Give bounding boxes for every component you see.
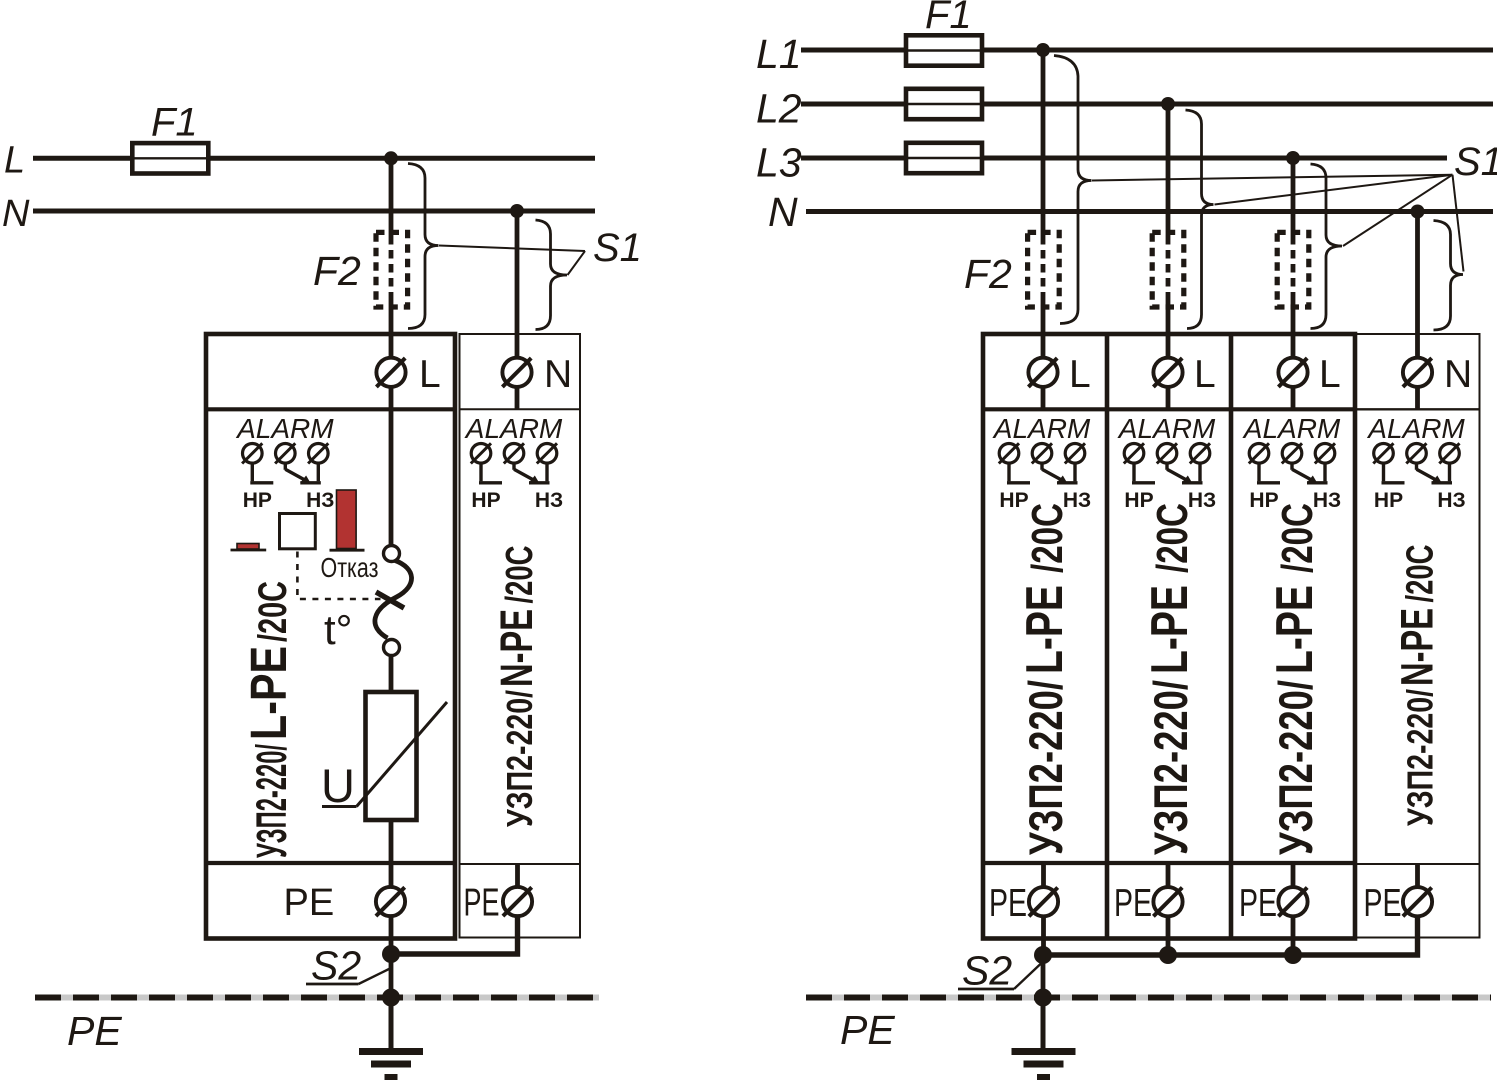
- wire S2 to PE bus right: [1041, 955, 1046, 998]
- indicator tall bar base: [330, 549, 365, 552]
- svg-text:F2: F2: [964, 251, 1012, 297]
- wire to ground left: [389, 998, 394, 1049]
- terminal PE module1: [376, 887, 405, 916]
- wire S2 bus right: [1043, 916, 1418, 955]
- wire L2 dashed in F2: [1166, 236, 1171, 298]
- indicator white square: [280, 514, 316, 549]
- wire to L terminal: [389, 298, 394, 359]
- svg-text:/20C: /20C: [1023, 503, 1072, 573]
- wire L drop: [389, 158, 394, 236]
- svg-text:N-PE: N-PE: [491, 609, 542, 687]
- module 1 PE row line: [206, 861, 455, 865]
- pointer S1 to brace3: [1343, 175, 1453, 246]
- svg-text:F1: F1: [925, 0, 972, 37]
- line L3: [801, 156, 1447, 161]
- svg-text:УЗП2-220/: УЗП2-220/: [1019, 680, 1072, 855]
- terminal PE module2: [503, 887, 532, 916]
- module 1 box L-PE: [206, 334, 455, 939]
- svg-text:PE: PE: [1114, 882, 1152, 925]
- node PE bus junction: [382, 989, 400, 1007]
- wire PE module1 down: [389, 915, 394, 954]
- wire thermal to varistor: [389, 656, 394, 692]
- line N right: [806, 209, 1493, 214]
- svg-text:PE: PE: [989, 882, 1027, 925]
- S2 pointer right: [1014, 964, 1041, 990]
- fuse F2 dashed phase1: [1028, 232, 1060, 307]
- PE row line right thick: [983, 861, 1355, 865]
- pointer S1 to brace2: [1215, 175, 1453, 205]
- ground left: [359, 1052, 423, 1078]
- wire to ground right: [1041, 998, 1046, 1049]
- wire S2 to PE bus: [389, 954, 394, 998]
- svg-text:N: N: [2, 193, 30, 235]
- svg-text:PE: PE: [464, 882, 500, 925]
- fuse F1 phase1: [906, 35, 982, 65]
- node S2 junctions right: [1034, 946, 1052, 964]
- node L1 junction: [1036, 43, 1050, 57]
- wire dashed inside F2: [389, 236, 394, 298]
- line L1: [801, 48, 1493, 53]
- svg-text:N: N: [544, 353, 572, 396]
- separator module1/2: [1105, 334, 1110, 939]
- wire L1 to terminal: [1041, 298, 1046, 359]
- indicator small red bar: [237, 544, 259, 550]
- wire L3 dashed in F2: [1291, 236, 1296, 298]
- node L junction: [384, 151, 398, 165]
- svg-text:S1: S1: [593, 226, 642, 270]
- wire L1 dashed in F2: [1041, 236, 1046, 298]
- varistor U body: [366, 692, 417, 820]
- dashed link square to thermal: [297, 552, 380, 600]
- svg-text:L-PE: L-PE: [1266, 585, 1324, 674]
- svg-text:L1: L1: [756, 31, 802, 77]
- fuse F1 phase3: [906, 143, 982, 173]
- svg-text:N-PE: N-PE: [1392, 608, 1443, 686]
- svg-text:L: L: [1069, 353, 1091, 396]
- varistor foot: [322, 805, 357, 808]
- wire L3 drop: [1291, 158, 1296, 236]
- terminal L module r2: [1153, 358, 1182, 387]
- svg-text:S2: S2: [311, 943, 361, 989]
- terminal N module r4: [1403, 358, 1432, 387]
- wire varistor to PE terminal: [389, 820, 394, 888]
- alarm cluster module r2: [1117, 413, 1216, 512]
- varistor diagonal: [357, 702, 448, 807]
- PE bus gray underlay left: [35, 995, 599, 1001]
- brace neutral right: [1434, 221, 1464, 331]
- fuse F1: [132, 143, 208, 173]
- wire L2 drop: [1166, 104, 1171, 236]
- right modules outer box: [983, 334, 1355, 939]
- S2 underline: [306, 983, 359, 986]
- svg-text:L3: L3: [756, 140, 802, 186]
- svg-text:/20C: /20C: [251, 581, 295, 642]
- thermal top contact circle: [384, 546, 400, 562]
- terminal L module r3: [1278, 358, 1307, 387]
- svg-text:УЗП2-220/: УЗП2-220/: [499, 690, 540, 827]
- brace S1 neutral: [536, 220, 568, 330]
- line L2: [801, 102, 1493, 107]
- terminal L module1: [376, 358, 405, 387]
- thermal bottom contact circle: [384, 640, 400, 656]
- wire stub below N terminal: [515, 386, 520, 409]
- alarm cluster module r4: [1366, 413, 1465, 512]
- svg-text:/20C: /20C: [1273, 503, 1322, 573]
- alarm cluster module2: [464, 413, 563, 512]
- terminal L module r1: [1028, 358, 1057, 387]
- svg-text:F2: F2: [313, 248, 361, 294]
- pointer S1 to brace1: [1092, 175, 1453, 181]
- brace phase1: [1054, 56, 1092, 324]
- fuse F2 dashed: [376, 232, 408, 307]
- S2 underline right: [958, 988, 1014, 991]
- svg-text:Отказ: Отказ: [321, 552, 379, 583]
- svg-text:/20C: /20C: [1400, 545, 1442, 603]
- svg-text:F1: F1: [151, 101, 198, 145]
- svg-text:PE: PE: [1239, 882, 1277, 925]
- node N junction: [510, 204, 524, 218]
- node S2 junction: [382, 945, 400, 963]
- indicator small bar base: [231, 549, 267, 552]
- svg-text:/20C: /20C: [499, 546, 541, 604]
- fuse F2 dashed phase2: [1152, 232, 1184, 307]
- wire stubs below terminals right: [1041, 386, 1046, 409]
- node N junction right: [1411, 205, 1425, 219]
- svg-text:t°: t°: [324, 606, 352, 653]
- wire L1 drop: [1041, 50, 1046, 236]
- PE drops right: [1041, 916, 1046, 955]
- wire L2 to terminal: [1166, 298, 1171, 359]
- terminal row line module4: [1355, 408, 1480, 410]
- module 2 box N-PE: [460, 334, 581, 938]
- pointer line S1 to brace N: [568, 251, 586, 275]
- svg-text:L: L: [1194, 353, 1216, 396]
- module4 box: [1355, 334, 1480, 938]
- wire L terminal to thermal: [389, 386, 394, 546]
- svg-text:S2: S2: [962, 948, 1012, 994]
- svg-text:L-PE: L-PE: [240, 646, 297, 740]
- wire L3 to terminal: [1291, 298, 1296, 359]
- svg-text:L-PE: L-PE: [1016, 585, 1074, 674]
- indicator tall red bar Отказ: [337, 490, 357, 549]
- alarm cluster module1: [235, 413, 334, 512]
- svg-text:УЗП2-220/: УЗП2-220/: [248, 744, 296, 858]
- PE bus dashed right: [806, 995, 1491, 1001]
- fuse F2 dashed phase3: [1277, 232, 1309, 307]
- svg-text:/20C: /20C: [1148, 503, 1197, 573]
- svg-text:УЗП2-220/: УЗП2-220/: [1269, 680, 1322, 855]
- pointer line brace L to S1: [439, 246, 585, 252]
- svg-text:УЗП2-220/: УЗП2-220/: [1400, 689, 1441, 826]
- svg-text:N: N: [1444, 353, 1472, 396]
- ground right: [1012, 1052, 1076, 1078]
- wire stub above PE module2: [515, 864, 520, 888]
- brace S1 left: [408, 164, 439, 329]
- brace phase3: [1311, 164, 1343, 329]
- wire S2 bus left: [391, 915, 518, 954]
- module 2 terminal row line: [460, 408, 581, 410]
- wire N drop: [515, 211, 520, 359]
- node L2 junction: [1161, 97, 1175, 111]
- line N: [33, 209, 595, 214]
- thermal blade: [376, 592, 404, 608]
- terminal row line right thick: [983, 407, 1355, 411]
- line L: [33, 156, 595, 161]
- PE row line module4: [1355, 863, 1480, 865]
- svg-text:L: L: [4, 140, 25, 182]
- thermal S-curve: [375, 561, 412, 639]
- PE bus gray underlay right: [806, 995, 1491, 1001]
- terminal N module2: [502, 358, 531, 387]
- S2 pointer: [359, 969, 391, 985]
- brace phase2: [1186, 110, 1214, 329]
- svg-text:N: N: [768, 189, 798, 235]
- svg-text:УЗП2-220/: УЗП2-220/: [1144, 680, 1197, 855]
- wire N drop right: [1415, 212, 1420, 359]
- module 1 terminal row line: [206, 407, 455, 411]
- PE stubs above right: [1041, 863, 1046, 888]
- svg-text:PE: PE: [1364, 882, 1402, 925]
- svg-text:U: U: [321, 759, 355, 812]
- svg-text:L2: L2: [756, 86, 802, 132]
- pointer S1 to brace4: [1453, 175, 1464, 272]
- svg-text:L-PE: L-PE: [1141, 585, 1199, 674]
- alarm cluster module r3: [1242, 413, 1341, 512]
- svg-text:PE: PE: [67, 1008, 122, 1054]
- svg-text:L: L: [419, 353, 441, 396]
- fuse F1 phase2: [906, 89, 982, 119]
- svg-text:PE: PE: [840, 1007, 895, 1053]
- svg-text:L: L: [1319, 353, 1341, 396]
- PE bus dashed left: [35, 995, 599, 1001]
- svg-text:PE: PE: [284, 882, 335, 924]
- node PE bus junction right: [1034, 989, 1052, 1007]
- module 2 PE row line: [460, 863, 581, 865]
- alarm cluster module r1: [992, 413, 1091, 512]
- node L3 junction: [1286, 151, 1300, 165]
- separator module2/3: [1229, 334, 1234, 939]
- svg-text:S1: S1: [1454, 140, 1497, 184]
